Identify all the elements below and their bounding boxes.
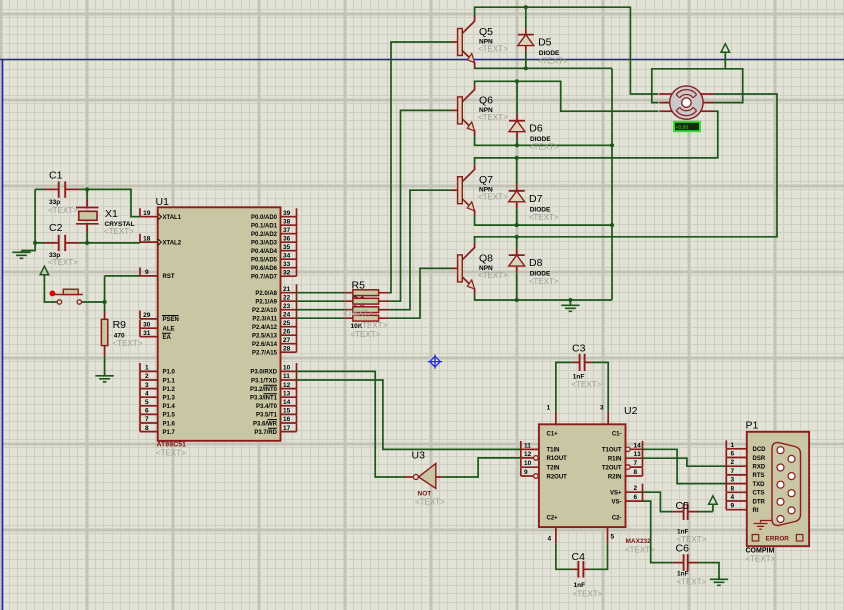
svg-text:<TEXT>: <TEXT> [572,380,602,389]
svg-text:31: 31 [143,330,151,337]
svg-text:35: 35 [283,244,291,251]
svg-text:CTS: CTS [753,491,765,497]
svg-text:P0.7/AD7: P0.7/AD7 [251,275,278,281]
wire crystal taps [86,189,88,243]
svg-text:<TEXT>: <TEXT> [478,45,508,54]
svg-text:27: 27 [283,337,291,344]
svg-text:R5: R5 [352,280,366,292]
wire p2 row 0 [297,292,345,294]
svg-text:2: 2 [731,459,735,466]
svg-text:22: 22 [283,294,291,301]
svg-text:C3: C3 [572,343,586,355]
svg-text:P2.6/A14: P2.6/A14 [252,342,278,348]
junction d8 top [515,235,519,239]
transistor Q5 (NPN) [451,41,458,43]
wire emitter bus [611,68,613,300]
svg-text:14: 14 [634,442,642,449]
svg-text:<TEXT>: <TEXT> [48,258,78,267]
svg-text:P3.6/WR: P3.6/WR [253,421,278,427]
P1 pin stubs [726,440,747,509]
svg-text:X1: X1 [105,208,118,220]
U2 left pins [521,441,539,476]
svg-text:1: 1 [731,442,735,449]
junction d6 bot [515,143,519,147]
capacitor C1 [45,188,79,190]
svg-text:1: 1 [145,365,149,372]
svg-text:C6: C6 [676,543,690,555]
svg-text:P1.3: P1.3 [163,396,176,402]
svg-text:VS-: VS- [611,499,621,505]
wire C1 row to XTAL1 [35,189,140,216]
svg-text:+0.00: +0.00 [676,125,689,131]
svg-text:C5: C5 [676,500,690,512]
resistor R6 [345,300,389,302]
wire base net 1 [389,110,451,301]
svg-text:<TEXT>: <TEXT> [478,271,508,280]
svg-text:<TEXT>: <TEXT> [529,143,559,152]
svg-text:<TEXT>: <TEXT> [415,498,445,507]
svg-text:P3.2/INT0: P3.2/INT0 [250,387,278,393]
svg-text:P2.0/A8: P2.0/A8 [255,291,277,297]
svg-text:P1.4: P1.4 [163,404,176,410]
svg-text:R1OUT: R1OUT [547,456,568,462]
svg-text:U1: U1 [156,196,170,208]
svg-text:C2: C2 [49,222,63,234]
junction button-R9-RST [103,300,107,304]
inverter U3 (NOT) [405,476,413,478]
svg-text:11: 11 [524,442,531,449]
wire c3 loop [556,362,608,411]
wire p2 row 1 [297,300,345,302]
svg-text:7: 7 [731,468,735,475]
wire q7 coll [475,111,718,164]
svg-text:P1.5: P1.5 [163,413,176,419]
wire q6 emit [475,136,612,145]
svg-text:<TEXT>: <TEXT> [746,555,776,564]
P1 error indicators [752,535,759,542]
U1 left pin stubs [140,208,158,431]
svg-text:23: 23 [283,303,291,310]
junction d7 bot [515,223,519,227]
svg-text:C2-: C2- [612,516,622,522]
svg-text:9: 9 [731,503,735,510]
svg-text:P2.5/A13: P2.5/A13 [252,334,278,340]
svg-text:18: 18 [143,235,151,242]
svg-text:P0.2/AD2: P0.2/AD2 [251,232,278,238]
svg-text:<TEXT>: <TEXT> [529,213,559,222]
svg-text:R1IN: R1IN [608,457,622,463]
wire c4 loop [556,543,608,569]
wire q6 coll [475,81,659,111]
U1 right pin stubs [281,208,297,431]
svg-text:39: 39 [283,210,291,217]
resistor R5 [345,292,389,294]
junction bus-gnd [568,298,572,302]
svg-text:P0.3/AD3: P0.3/AD3 [251,241,278,247]
wire vcc stem [724,52,726,69]
svg-text:AT89C51: AT89C51 [157,441,187,448]
svg-text:5: 5 [611,534,615,541]
svg-text:4: 4 [731,494,735,501]
svg-text:Q6: Q6 [479,94,493,106]
junction crystal top [85,187,89,191]
wire D5 leads [525,7,527,68]
svg-text:P0.6/AD6: P0.6/AD6 [251,266,278,272]
svg-text:<TEXT>: <TEXT> [113,339,143,348]
svg-text:P1.2: P1.2 [163,387,176,393]
svg-text:Q5: Q5 [479,26,493,38]
svg-text:34: 34 [283,252,291,259]
origin marker [428,355,442,369]
P1 internal ground [754,521,773,530]
svg-text:38: 38 [283,218,291,225]
svg-text:P3.7/RD: P3.7/RD [254,430,277,436]
wire q8 emit [475,294,612,300]
svg-text:10: 10 [283,365,291,372]
svg-text:R2OUT: R2OUT [547,474,568,480]
svg-text:P2.1/A9: P2.1/A9 [255,300,277,306]
svg-text:17: 17 [283,425,291,432]
wire motor loop [652,69,743,103]
ground GND crystal [12,251,30,259]
wire left rail [22,189,36,250]
svg-text:R2IN: R2IN [608,474,622,480]
svg-text:P0.1/AD1: P0.1/AD1 [251,224,278,230]
svg-text:30: 30 [143,321,151,328]
U1 overlines [162,316,277,429]
svg-text:1nF: 1nF [677,571,689,578]
svg-text:P0.5/AD5: P0.5/AD5 [251,258,278,264]
U2 body [539,424,626,527]
svg-text:RST: RST [163,274,175,280]
svg-text:C1: C1 [49,170,63,182]
junction C2 rail tap [33,241,37,245]
wire vs- c6 [643,501,720,578]
ground GND R9 [95,374,113,382]
transistor Q6 (NPN) [451,109,458,111]
transistor Q7 (NPN) [451,189,458,191]
wire not-in to r1out [443,458,521,477]
svg-text:P1.6: P1.6 [163,421,176,427]
svg-text:<TEXT>: <TEXT> [156,449,186,458]
svg-text:25: 25 [283,320,291,327]
svg-text:<TEXT>: <TEXT> [478,193,508,202]
wire p2 row 3 [297,317,345,319]
svg-text:2: 2 [145,373,149,380]
svg-text:12: 12 [283,382,291,389]
svg-text:U2: U2 [624,405,638,417]
svg-text:P3.1/TXD: P3.1/TXD [251,378,278,384]
svg-text:6: 6 [731,451,735,458]
capacitor C2 [45,242,79,244]
U1 body [158,207,281,440]
svg-text:PSEN: PSEN [163,317,179,323]
motor value display [674,122,700,131]
svg-text:33: 33 [283,261,291,268]
wire p2 row 2 [297,309,345,311]
svg-text:2: 2 [634,485,638,492]
svg-text:<TEXT>: <TEXT> [538,57,568,66]
power symbol VCC motor [721,44,730,53]
wire gnd tap [569,300,571,304]
junction d7 top [515,156,519,160]
capacitor C4 [573,568,590,570]
svg-text:28: 28 [283,345,291,352]
svg-text:12: 12 [524,451,532,458]
wire vs+ c5 [643,492,713,511]
svg-text:P2.3/A11: P2.3/A11 [252,317,277,323]
svg-text:C2+: C2+ [547,516,559,522]
svg-text:3: 3 [145,382,149,389]
junction crystal bottom [85,241,89,245]
svg-text:3: 3 [600,405,604,412]
svg-text:11: 11 [283,373,290,380]
svg-text:<TEXT>: <TEXT> [478,113,508,122]
svg-text:13: 13 [283,390,291,397]
wire q5 emit [475,67,612,69]
motor M1 (stepper) [659,86,713,119]
junction d6 top [515,79,519,83]
svg-text:9: 9 [145,269,149,276]
svg-text:16: 16 [283,416,291,423]
svg-text:P0.0/AD0: P0.0/AD0 [251,215,278,221]
wire R9 to ground [104,356,106,375]
svg-text:DTR: DTR [753,499,766,505]
svg-text:P2.2/A10: P2.2/A10 [252,308,278,314]
svg-text:29: 29 [143,312,151,319]
capacitor C6 [673,562,699,564]
wire base net 3 [389,268,451,318]
svg-text:RTS: RTS [753,473,765,479]
svg-text:<TEXT>: <TEXT> [573,590,603,599]
power symbol VCC reset [40,266,49,275]
svg-text:D8: D8 [529,257,543,269]
svg-text:XTAL1: XTAL1 [163,215,182,221]
wire r1in-rxd [643,458,727,466]
svg-text:9: 9 [524,469,528,476]
svg-text:10: 10 [524,460,532,467]
wire reset button row [44,275,104,302]
wire C2 row to XTAL2 [35,242,140,244]
svg-text:C1+: C1+ [547,432,559,438]
svg-text:DSR: DSR [753,456,766,462]
svg-text:TXD: TXD [753,482,766,488]
svg-text:P2.7/A15: P2.7/A15 [252,351,278,357]
junction bus-q6 [610,143,614,147]
resistor R8 [345,317,389,319]
svg-text:6: 6 [634,494,638,501]
resistor R9 [104,312,106,357]
svg-text:COMPIM: COMPIM [746,548,775,555]
U2 right pins [626,441,643,501]
button (reset) [57,300,61,304]
junction d5 top [524,5,528,9]
svg-text:32: 32 [283,269,291,276]
svg-text:37: 37 [283,227,291,234]
wire base net 2 [389,190,451,310]
svg-text:24: 24 [283,311,291,318]
svg-text:13: 13 [634,451,642,458]
svg-text:3: 3 [731,477,735,484]
svg-text:21: 21 [283,286,291,293]
svg-text:<TEXT>: <TEXT> [351,330,381,339]
junction bus-q7 [610,223,614,227]
svg-text:U3: U3 [412,450,426,462]
svg-text:D5: D5 [538,37,552,49]
svg-text:4: 4 [548,536,552,543]
svg-text:P1.0: P1.0 [163,370,176,376]
svg-text:MAX232: MAX232 [626,538,652,545]
svg-text:C4: C4 [572,551,586,563]
svg-text:26: 26 [283,328,291,335]
svg-text:<TEXT>: <TEXT> [677,578,707,587]
svg-text:8: 8 [634,469,638,476]
svg-text:T1OUT: T1OUT [602,448,622,454]
capacitor C5 [673,511,699,513]
svg-text:RI: RI [753,508,759,514]
P1 DB9 holes [777,447,784,454]
svg-text:XTAL2: XTAL2 [163,240,182,246]
capacitor C3 [573,361,592,363]
wire t1out-txd [643,449,727,483]
wire base net 0 [389,42,451,293]
svg-text:DCD: DCD [753,447,767,453]
svg-text:ERROR: ERROR [766,536,790,543]
svg-text:T2IN: T2IN [547,466,560,472]
svg-text:VS+: VS+ [610,491,622,497]
power symbol VCC serial [709,496,718,505]
svg-text:6: 6 [145,408,149,415]
wire rxd [297,371,406,477]
svg-text:Q8: Q8 [479,252,493,264]
svg-text:5: 5 [145,399,149,406]
svg-text:<TEXT>: <TEXT> [48,206,78,215]
svg-text:14: 14 [283,399,291,406]
svg-text:D7: D7 [529,193,543,205]
svg-text:33p: 33p [49,199,60,206]
svg-text:NOT: NOT [418,491,432,498]
svg-text:ALE: ALE [163,327,175,333]
svg-text:T1IN: T1IN [547,448,560,454]
svg-text:P3.5/T1: P3.5/T1 [256,413,278,419]
svg-text:P1.1: P1.1 [163,378,176,384]
svg-text:P1.7: P1.7 [163,430,176,436]
svg-text:<TEXT>: <TEXT> [343,309,373,318]
svg-text:Q7: Q7 [479,174,493,186]
transistor Q8 (NPN) [451,267,458,269]
svg-text:1nF: 1nF [574,582,586,589]
svg-text:R9: R9 [113,319,127,331]
svg-text:<TEXT>: <TEXT> [358,321,388,330]
svg-text:4: 4 [145,390,149,397]
svg-text:P1: P1 [746,420,759,432]
wire D8 leads [516,237,518,300]
ground GND serial [710,578,728,586]
svg-text:1: 1 [547,405,551,412]
junction d5 bot [524,66,528,70]
wire q8 coll [475,94,777,242]
svg-text:RXD: RXD [753,465,766,471]
wire q5 coll [475,7,659,94]
wire RST net [105,276,140,312]
junction d8 bot [515,298,519,302]
svg-text:P0.4/AD4: P0.4/AD4 [251,249,278,255]
svg-text:7: 7 [145,416,149,423]
svg-text:D6: D6 [529,123,543,135]
resistor R7 [345,309,389,311]
svg-text:EA: EA [163,335,172,341]
svg-text:15: 15 [283,408,291,415]
svg-text:7: 7 [634,460,638,467]
svg-text:T2OUT: T2OUT [602,465,622,471]
svg-text:19: 19 [143,210,151,217]
svg-text:P3.0/RXD: P3.0/RXD [250,370,277,376]
connector P1 COMPIM [747,432,809,546]
svg-text:8: 8 [731,485,735,492]
svg-text:P2.4/A12: P2.4/A12 [252,325,278,331]
svg-text:C1-: C1- [612,432,622,438]
svg-text:<TEXT>: <TEXT> [104,227,134,236]
wire q7 emit [475,216,612,225]
P1 DB9 face [772,443,801,526]
svg-text:<TEXT>: <TEXT> [529,277,559,286]
svg-text:8: 8 [145,425,149,432]
svg-text:P3.3/INT1: P3.3/INT1 [250,396,278,402]
wire D7 leads [516,158,518,225]
svg-text:P3.4/T0: P3.4/T0 [256,404,278,410]
wire txd to t1in [297,380,521,449]
svg-text:36: 36 [283,235,291,242]
U2 top/bottom pins [556,412,608,544]
wire D6 leads [516,81,518,145]
ground GND drivers [561,304,579,312]
